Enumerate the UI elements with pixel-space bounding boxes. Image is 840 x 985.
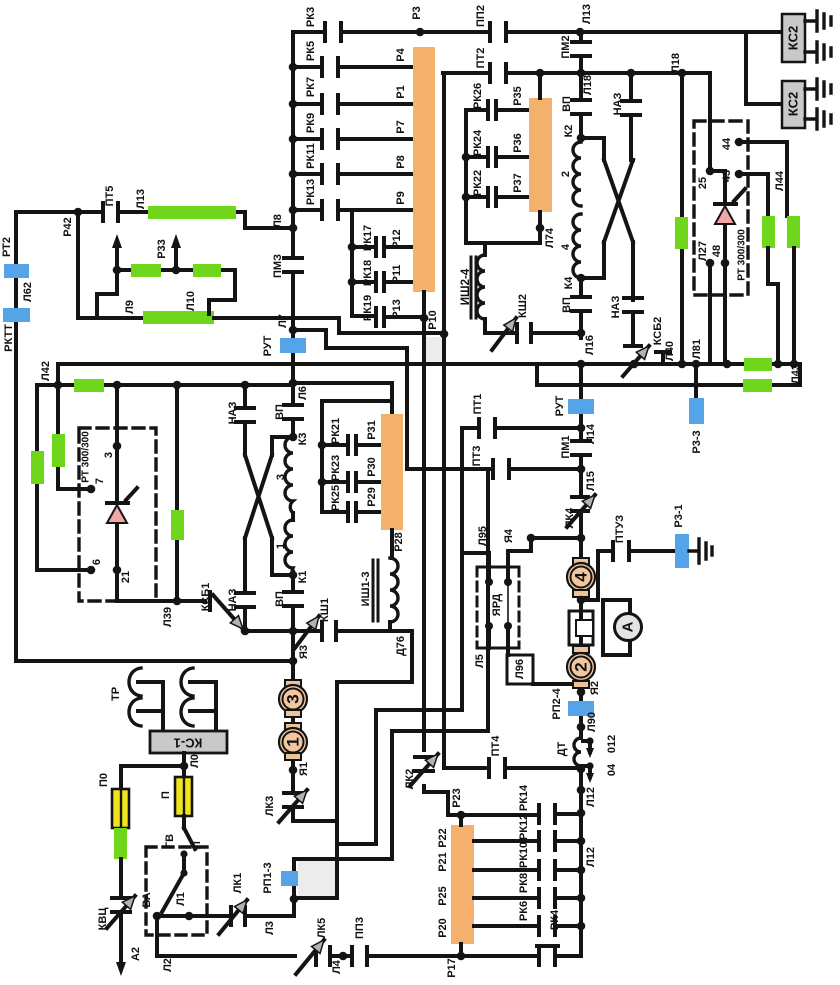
wire Ya3 horizontal xyxy=(16,659,293,663)
contact VP upper-left bus xyxy=(284,405,302,419)
node 3 xyxy=(113,442,122,451)
svg-text:РП1-3: РП1-3 xyxy=(262,862,274,893)
svg-text:Р3-1: Р3-1 xyxy=(673,504,685,527)
thyristor RT300 left xyxy=(107,446,137,570)
node P17 xyxy=(457,952,466,961)
wire LK3 jog xyxy=(293,812,337,821)
resistor L81 vert xyxy=(675,217,688,249)
node x631 top xyxy=(627,69,636,78)
field coil 2 xyxy=(573,142,581,206)
node 7 xyxy=(87,485,96,494)
svg-text:Р29: Р29 xyxy=(366,487,378,507)
svg-text:РК5: РК5 xyxy=(305,41,317,61)
node L13 xyxy=(576,28,585,37)
wire 48 down xyxy=(723,263,727,364)
svg-text:Р31: Р31 xyxy=(366,420,378,440)
wire KS2 top xyxy=(746,32,782,104)
svg-text:Р4: Р4 xyxy=(395,47,407,61)
svg-text:2: 2 xyxy=(572,662,591,671)
svg-text:Р17: Р17 xyxy=(446,958,458,978)
svg-text:Л: Л xyxy=(191,841,203,849)
relay RP2-4 xyxy=(568,701,594,716)
svg-text:РТ 300/300: РТ 300/300 xyxy=(737,229,748,281)
svg-text:ПТ5: ПТ5 xyxy=(104,186,116,207)
svg-text:Л12: Л12 xyxy=(585,787,597,807)
wire V3 PT2 to PT4 xyxy=(442,73,446,768)
node 48 xyxy=(721,259,730,268)
svg-text:РК19: РК19 xyxy=(362,295,374,321)
wire 6 path xyxy=(37,385,91,570)
wire P33 row xyxy=(117,268,235,272)
svg-text:РК18: РК18 xyxy=(362,260,374,286)
resistor on L42 xyxy=(74,379,104,392)
svg-text:РУТ: РУТ xyxy=(554,395,566,416)
wire KVC xyxy=(119,859,123,962)
bus x581 middle xyxy=(579,364,583,956)
node left X bottom xyxy=(241,627,250,636)
svg-text:ВА: ВА xyxy=(141,892,153,907)
node motor4 out xyxy=(577,596,586,605)
svg-text:2: 2 xyxy=(560,171,572,177)
node PT2-orange xyxy=(536,69,545,78)
svg-text:КШ2: КШ2 xyxy=(517,294,529,318)
node L6 xyxy=(289,379,298,388)
svg-text:Я2: Я2 xyxy=(589,681,601,695)
svg-text:Р1: Р1 xyxy=(395,85,407,98)
svg-text:Л42: Л42 xyxy=(40,361,52,381)
svg-text:Р11: Р11 xyxy=(391,265,403,284)
svg-text:КШ1: КШ1 xyxy=(319,598,331,622)
node L0 xyxy=(182,753,186,766)
ground a1 xyxy=(805,11,831,31)
svg-text:КС2: КС2 xyxy=(786,26,801,50)
svg-text:ЛК2: ЛК2 xyxy=(404,769,416,790)
svg-text:РК10: РК10 xyxy=(518,842,530,868)
svg-text:ИШ2-4: ИШ2-4 xyxy=(460,268,472,305)
svg-text:Я3: Я3 xyxy=(298,645,310,659)
wire L18 down xyxy=(680,73,684,364)
node L27 xyxy=(706,259,715,268)
wire B right xyxy=(537,364,800,385)
ground b1 xyxy=(805,79,831,99)
node L8 xyxy=(289,224,298,233)
svg-text:21: 21 xyxy=(120,571,132,583)
svg-text:1: 1 xyxy=(284,737,303,746)
wire P17 xyxy=(459,944,463,956)
wire L9 jog xyxy=(97,270,117,318)
contact PP2 xyxy=(490,23,506,41)
wire L10 step to P10 xyxy=(339,318,444,333)
svg-text:РК14: РК14 xyxy=(518,784,530,811)
svg-text:РК24: РК24 xyxy=(472,129,484,156)
wire 25 xyxy=(708,73,712,171)
wire PT2 row xyxy=(443,71,710,75)
contact PT2 xyxy=(490,64,506,82)
svg-text:РК7: РК7 xyxy=(305,77,317,97)
svg-text:Р3: Р3 xyxy=(411,6,423,19)
node P23 xyxy=(457,811,466,820)
ground a2 xyxy=(805,42,831,62)
node K1 xyxy=(289,571,298,580)
arrow P33 right xyxy=(174,244,178,268)
node L18b xyxy=(678,69,687,78)
svg-text:РК23: РК23 xyxy=(330,455,342,481)
svg-text:КСБ2: КСБ2 xyxy=(652,317,664,346)
svg-text:Л90: Л90 xyxy=(586,712,598,732)
wire Ya4 to YaRD xyxy=(508,538,531,582)
svg-text:РК13: РК13 xyxy=(305,179,317,205)
tap 04 xyxy=(583,766,590,777)
svg-text:Л1: Л1 xyxy=(175,892,187,906)
relay RUT coil xyxy=(280,338,306,353)
contactor LK2 xyxy=(415,757,433,771)
inductive shunt ISh2-4 coil xyxy=(477,255,485,319)
svg-text:РК12: РК12 xyxy=(518,814,530,840)
contact VP right bottom xyxy=(572,297,590,311)
svg-text:А: А xyxy=(620,621,637,632)
svg-text:7: 7 xyxy=(94,478,106,484)
node 25 xyxy=(706,167,715,176)
svg-text:ПП3: ПП3 xyxy=(354,917,366,939)
svg-text:ЛК1: ЛК1 xyxy=(232,873,244,894)
node Ya2 xyxy=(577,688,586,697)
fuse P0 xyxy=(112,789,129,828)
svg-text:ЛК5: ЛК5 xyxy=(316,918,328,939)
field coil 3 xyxy=(285,437,293,513)
rung RK10 xyxy=(474,868,581,872)
svg-text:Д76: Д76 xyxy=(395,636,407,656)
node L7 xyxy=(289,326,298,335)
gray patch RP1-3 xyxy=(298,861,336,897)
node 43 xyxy=(735,170,744,179)
svg-text:НАЗ: НАЗ xyxy=(227,402,239,425)
svg-text:Л0: Л0 xyxy=(189,754,201,768)
svg-text:Р37: Р37 xyxy=(512,173,524,193)
svg-text:4: 4 xyxy=(560,243,572,250)
current collector KS2 a xyxy=(782,14,805,62)
node L15 xyxy=(577,465,586,474)
contacts RK5 RK7 RK9 RK11 RK13 xyxy=(322,58,338,219)
terminal box L96 xyxy=(507,655,533,684)
svg-text:ВП: ВП xyxy=(561,297,573,313)
wire 43 lower xyxy=(768,248,778,364)
svg-text:РК6: РК6 xyxy=(518,901,530,921)
rung RK6 xyxy=(474,924,581,928)
wire L44 lower xyxy=(792,248,796,364)
svg-text:Л44: Л44 xyxy=(774,170,786,191)
node P13 xyxy=(420,314,429,323)
wire PT1 row xyxy=(462,426,581,430)
left rail RT2 xyxy=(14,212,18,661)
svg-text:Р36: Р36 xyxy=(512,133,524,153)
node RP1-3 xyxy=(290,895,299,904)
svg-text:НАЗ: НАЗ xyxy=(610,296,622,319)
svg-text:Р33: Р33 xyxy=(156,239,168,259)
svg-text:РП2-4: РП2-4 xyxy=(551,688,563,720)
svg-text:ПП2: ПП2 xyxy=(475,5,487,27)
svg-text:ПТ4: ПТ4 xyxy=(490,735,502,757)
wire P28 xyxy=(390,530,394,558)
wire PT5 row xyxy=(16,212,293,228)
contactor KSB2 xyxy=(625,346,670,364)
svg-text:КС-1: КС-1 xyxy=(174,736,203,751)
svg-text:ТР: ТР xyxy=(110,687,122,701)
svg-text:КСБ1: КСБ1 xyxy=(200,583,212,612)
node L39 xyxy=(173,597,182,606)
resistor P33 a xyxy=(131,264,161,277)
wire L96 xyxy=(487,626,491,648)
node R3 xyxy=(416,28,425,37)
node P33 right xyxy=(172,266,181,275)
relay RT2 coil xyxy=(4,264,29,278)
svg-text:П0: П0 xyxy=(98,773,110,787)
node L90 xyxy=(577,723,586,732)
wire P23 xyxy=(448,814,581,825)
switch GV xyxy=(184,816,195,873)
top bus x293 xyxy=(291,32,295,812)
svg-text:РТ2: РТ2 xyxy=(1,237,13,257)
sub bus RK17 ladder xyxy=(350,210,354,316)
wire PT4 row xyxy=(444,766,581,770)
svg-text:ЛК3: ЛК3 xyxy=(264,796,276,817)
rows RK26 RK24 RK22 xyxy=(466,110,529,197)
resistor vert c xyxy=(171,510,184,540)
svg-text:Р8: Р8 xyxy=(395,155,407,168)
svg-text:ДТ: ДТ xyxy=(556,741,568,756)
contact PP3 xyxy=(352,947,367,965)
svg-text:РК9: РК9 xyxy=(305,113,317,133)
svg-text:РК4: РК4 xyxy=(549,909,561,930)
svg-text:ПТ3: ПТ3 xyxy=(471,446,483,467)
switch VA blade xyxy=(180,869,187,876)
tap 012 xyxy=(583,741,590,752)
wire KSh1 row extension xyxy=(245,629,293,633)
svg-text:Р25: Р25 xyxy=(437,886,449,906)
svg-text:Л4: Л4 xyxy=(331,959,343,974)
svg-text:44: 44 xyxy=(721,137,733,150)
contact PM2 xyxy=(572,42,590,56)
wire L10 jog xyxy=(209,270,235,314)
svg-text:А2: А2 xyxy=(130,947,142,961)
svg-text:РК21: РК21 xyxy=(330,418,342,444)
svg-text:К1: К1 xyxy=(297,571,309,584)
node P33 left xyxy=(113,266,122,275)
svg-text:25: 25 xyxy=(697,177,709,189)
resistor P33 b xyxy=(193,264,221,277)
svg-text:РК22: РК22 xyxy=(472,170,484,196)
contactor LK3 xyxy=(284,793,302,807)
ammeter A xyxy=(615,614,642,641)
node K3 xyxy=(289,433,298,442)
resistor L44 vert xyxy=(787,216,800,248)
svg-text:РК17: РК17 xyxy=(362,225,374,251)
svg-text:РК11: РК11 xyxy=(305,143,317,169)
wire row RK3 xyxy=(293,30,746,34)
resistor L10 xyxy=(143,311,214,324)
bus x581 upper xyxy=(579,32,583,338)
resistor vert a xyxy=(31,451,44,484)
svg-text:ВП: ВП xyxy=(561,96,573,112)
svg-text:ВП: ВП xyxy=(274,591,286,607)
svg-text:ЯРД: ЯРД xyxy=(491,594,503,617)
svg-text:РК26: РК26 xyxy=(472,83,484,109)
node L4 xyxy=(339,952,348,961)
svg-text:ПМ1: ПМ1 xyxy=(560,435,572,458)
field coil 1 xyxy=(285,520,293,575)
svg-text:РУТ: РУТ xyxy=(262,335,274,356)
resistor on wire B right xyxy=(743,379,772,392)
svg-text:Л13: Л13 xyxy=(581,4,593,24)
svg-text:Р12: Р12 xyxy=(391,229,403,249)
svg-text:Л5: Л5 xyxy=(474,654,486,668)
node 44 xyxy=(735,138,744,147)
svg-text:Л62: Л62 xyxy=(22,282,34,302)
svg-text:ПТ1: ПТ1 xyxy=(472,394,484,415)
svg-text:Р30: Р30 xyxy=(366,457,378,477)
svg-text:Л2: Л2 xyxy=(162,958,174,972)
svg-text:Л14: Л14 xyxy=(585,423,597,444)
node Ya4 xyxy=(527,534,536,543)
contactor LK5 xyxy=(316,947,330,965)
svg-text:04: 04 xyxy=(606,763,618,776)
svg-text:Л16: Л16 xyxy=(584,335,596,355)
thyristor RT300 right xyxy=(710,171,745,263)
svg-text:3: 3 xyxy=(284,694,303,703)
ladder RK22 bus xyxy=(466,110,487,243)
svg-text:КС2: КС2 xyxy=(786,92,801,116)
svg-text:Р10: Р10 xyxy=(427,310,439,330)
wire RP node down to LK1 xyxy=(157,899,294,916)
wire L2 bus xyxy=(157,916,581,956)
resistor on wire A right xyxy=(744,358,772,371)
wire L39 xyxy=(117,570,205,601)
contact PT5 xyxy=(103,203,118,221)
svg-text:1: 1 xyxy=(275,543,287,549)
ammeter loop xyxy=(603,600,630,655)
svg-text:Р35: Р35 xyxy=(512,86,524,106)
wire to P0 xyxy=(121,766,184,789)
svg-text:Л9: Л9 xyxy=(124,300,136,314)
wire orange3 top xyxy=(538,73,542,98)
svg-text:П: П xyxy=(160,791,172,799)
wire Ya4 xyxy=(531,536,581,540)
svg-text:ИШ1-3: ИШ1-3 xyxy=(360,572,372,607)
node L1 left xyxy=(153,912,162,921)
svg-text:Л13: Л13 xyxy=(135,189,147,209)
node L18a xyxy=(577,69,586,78)
svg-text:РК3: РК3 xyxy=(305,7,317,27)
dashed box RT300 left xyxy=(79,428,156,601)
ammeter shunt xyxy=(569,611,593,645)
ground R3-1 xyxy=(689,539,712,563)
node 6 xyxy=(87,566,96,575)
box YaRD xyxy=(477,567,519,648)
wire L74 xyxy=(485,212,540,255)
svg-text:ПТУЗ: ПТУЗ xyxy=(614,515,626,543)
wire L95 xyxy=(462,428,489,582)
resistor vert b xyxy=(52,434,65,467)
node P42 xyxy=(74,208,83,217)
svg-text:ГВ: ГВ xyxy=(164,834,176,848)
wire PT3 to RP1-3 xyxy=(294,469,488,899)
wire x337 vertical xyxy=(294,682,337,898)
svg-text:Р9: Р9 xyxy=(395,191,407,204)
contact NA3 right bottom xyxy=(624,298,642,312)
contact VP right top xyxy=(572,100,590,114)
svg-text:Р21: Р21 xyxy=(437,852,449,872)
svg-text:РК8: РК8 xyxy=(518,873,530,893)
wire L7 step to PT3 xyxy=(293,330,407,469)
traction motor 4 xyxy=(573,558,589,565)
catenary box KS-1 xyxy=(150,731,227,753)
X crossing right xyxy=(581,73,633,346)
node Ya1 xyxy=(289,766,298,775)
contact PT4 xyxy=(489,759,505,777)
resistor 43 vert xyxy=(762,216,775,248)
node L14 xyxy=(577,424,586,433)
inductive shunt ISh1-3 coil xyxy=(390,558,398,622)
arrow P33 left xyxy=(115,244,119,268)
wire A long horizontal xyxy=(58,362,794,366)
svg-text:Л96: Л96 xyxy=(514,659,526,679)
traction motor 3 xyxy=(285,680,301,687)
wire 44 L44 xyxy=(739,142,787,216)
contact PM1 xyxy=(572,441,590,455)
wire 43 xyxy=(739,174,768,216)
svg-text:48: 48 xyxy=(711,245,723,257)
wire L5 xyxy=(337,553,462,844)
svg-text:Р3-3: Р3-3 xyxy=(691,430,703,453)
rows RK21 RK23 RK25 xyxy=(322,445,381,512)
X crossing left xyxy=(245,385,293,631)
svg-text:РТ 300/300: РТ 300/300 xyxy=(81,431,92,483)
svg-text:Р23: Р23 xyxy=(451,788,463,808)
contact RK4 xyxy=(537,946,558,965)
rheostat block 2 xyxy=(381,414,403,530)
contactor LK1 xyxy=(231,907,245,925)
rows RK17 RK18 RK19 xyxy=(352,247,423,317)
svg-text:НАЗ: НАЗ xyxy=(612,93,624,116)
traction motor 2 xyxy=(573,646,589,653)
wire 7 path xyxy=(58,385,91,489)
svg-text:3: 3 xyxy=(275,474,287,480)
traction motor 1 xyxy=(285,723,301,730)
svg-text:Р28: Р28 xyxy=(393,532,405,552)
wire x177 tap xyxy=(175,385,179,601)
svg-text:Я4: Я4 xyxy=(503,528,515,543)
svg-text:Л8: Л8 xyxy=(272,214,284,228)
node L16 xyxy=(577,329,586,338)
gray patch xyxy=(426,337,442,362)
rung RK8 xyxy=(474,896,581,900)
svg-text:Л18: Л18 xyxy=(582,75,594,95)
svg-text:КВЦ: КВЦ xyxy=(97,908,109,931)
wire PT3 row xyxy=(407,467,581,471)
svg-text:К4: К4 xyxy=(563,276,575,290)
svg-text:РКТТ: РКТТ xyxy=(3,324,15,352)
contact PTU3 xyxy=(613,542,629,560)
wire 3 tap xyxy=(115,385,119,446)
bus nodes right ladder xyxy=(577,809,586,818)
contact NA3 left top xyxy=(236,408,254,422)
svg-text:Р22: Р22 xyxy=(437,828,449,848)
YaRD inner contacts xyxy=(489,582,508,626)
svg-text:Л3: Л3 xyxy=(264,921,276,935)
node P10 xyxy=(440,330,449,339)
contact PM3 xyxy=(284,258,302,272)
relay R3-3 xyxy=(694,364,698,398)
svg-text:НАЗ: НАЗ xyxy=(227,589,239,612)
